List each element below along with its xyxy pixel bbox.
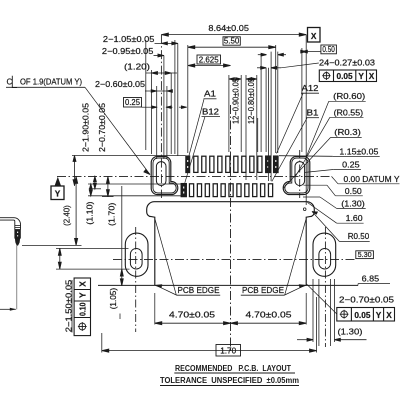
svg-text:R0.50: R0.50	[348, 231, 370, 241]
leader PCB EDGE left	[155, 220, 176, 296]
svg-text:2−0.70±0.05: 2−0.70±0.05	[97, 103, 107, 152]
dim (1.70) vertical	[107, 176, 109, 196]
leader centerline-of-1.9 note	[85, 87, 150, 174]
leader A1	[189, 99, 204, 155]
dim (2.40) vertical	[75, 176, 77, 245]
dim 2-0.95 line	[154, 55, 164, 57]
svg-text:0.25: 0.25	[342, 159, 360, 169]
leader (R0.60)	[329, 100, 366, 102]
extension line at x122	[121, 186, 123, 269]
right keyhole inner contour	[285, 158, 308, 193]
leader R0.50	[339, 241, 369, 243]
leader FCF bottom-right	[307, 284, 337, 314]
dim 2-0.70 vertical line left	[90, 184, 92, 196]
dim 2-0.60 line	[145, 90, 172, 92]
svg-text:A1: A1	[204, 89, 216, 99]
svg-text:8.64±0.05: 8.64±0.05	[208, 23, 249, 33]
svg-text:(1.05): (1.05)	[108, 288, 118, 310]
svg-text:PCB EDGE: PCB EDGE	[178, 285, 220, 295]
svg-text:(R0.3): (R0.3)	[334, 127, 361, 137]
pin B12 (dark)	[181, 183, 187, 197]
svg-text:0.50: 0.50	[345, 186, 362, 196]
svg-text:X: X	[369, 71, 375, 81]
side view bent lead outline	[0, 218, 21, 230]
datum Y target	[51, 177, 64, 200]
leader PCB EDGE right	[285, 220, 306, 296]
svg-text:2.625: 2.625	[199, 54, 219, 64]
dim 0.50 top-right line	[302, 51, 321, 53]
svg-text:RECOMMENDED P.C.B. LAYOUT: RECOMMENDED P.C.B. LAYOUT	[175, 363, 292, 373]
svg-text:PCB EDGE: PCB EDGE	[242, 285, 284, 295]
svg-text:(R0.60): (R0.60)	[333, 91, 365, 101]
extension lines body edge to 4.70 dim	[154, 293, 156, 325]
box 0.50 right	[321, 45, 337, 54]
box 1.70	[216, 345, 241, 357]
svg-text:Y: Y	[358, 71, 364, 81]
svg-text:Y: Y	[78, 292, 88, 298]
svg-text:4.70±0.05: 4.70±0.05	[169, 310, 215, 320]
leader 6.85 step	[357, 284, 359, 286]
svg-text:(1.10): (1.10)	[85, 201, 95, 224]
body bottom edge (extended line)	[98, 284, 358, 286]
svg-text:2−0.95±0.05: 2−0.95±0.05	[102, 46, 154, 56]
svg-text:TOLERANCE UNSPECIFIED ±0.05m: TOLERANCE UNSPECIFIED ±0.05mm	[160, 375, 299, 385]
dim 8.64	[161, 34, 306, 36]
svg-text:(R0.55): (R0.55)	[334, 107, 364, 117]
extension lines right pads	[257, 118, 259, 152]
leader 0.25 right	[333, 169, 361, 171]
left keyhole outer contour	[151, 156, 178, 194]
dim 4.70 left	[155, 322, 231, 324]
side view lead wire line	[16, 245, 18, 309]
datum X target	[308, 28, 321, 43]
left slot centerline	[160, 35, 162, 198]
FCF top right	[319, 70, 376, 82]
svg-text:C: C	[7, 78, 13, 87]
side view pin tip	[15, 238, 20, 245]
svg-text:Y: Y	[376, 310, 382, 320]
dim (1.05) vertical	[121, 269, 123, 286]
dim (1.30) bottom right	[297, 339, 313, 341]
extension lines left comb	[145, 40, 147, 150]
right keyhole slot	[295, 162, 305, 186]
side view pin block (hatched)	[15, 229, 21, 238]
side view ferrule rings	[15, 224, 21, 226]
left oval centerline vertical	[135, 227, 137, 332]
dim 12-0.80 arrows	[246, 78, 252, 81]
dim 2-1.90 vertical line	[74, 156, 76, 186]
leader 1.60	[337, 222, 364, 224]
1.70 dim extension lines	[101, 333, 103, 353]
dim 1.70	[102, 350, 317, 352]
left mounting oval inner slot	[130, 249, 142, 270]
side view arrow from left edge	[0, 308, 16, 310]
svg-text:4.70±0.05: 4.70±0.05	[246, 310, 292, 320]
svg-text:(1.30): (1.30)	[341, 198, 365, 208]
box 5.30	[356, 251, 374, 259]
svg-text:(1.30): (1.30)	[338, 327, 363, 337]
leader B12	[185, 117, 205, 183]
svg-text:24−0.27±0.03: 24−0.27±0.03	[319, 57, 375, 67]
svg-text:0.00 DATUM Y: 0.00 DATUM Y	[344, 174, 400, 184]
dim 5.50	[188, 46, 276, 48]
left mounting oval outer	[125, 233, 148, 276]
leader 0.00 datum underline	[338, 183, 400, 185]
svg-text:1.70: 1.70	[220, 346, 236, 356]
dim row-end stagger line	[258, 54, 266, 56]
bottom pad row B (open pads)	[189, 184, 272, 197]
svg-text:0.10: 0.10	[78, 302, 88, 316]
leader (R0.3)	[331, 137, 362, 139]
right mounting oval inner slot	[319, 249, 331, 270]
svg-text:B1: B1	[307, 108, 319, 118]
mount holes horizontal centerline	[113, 259, 356, 261]
dim 2.625	[188, 65, 231, 67]
svg-text:0.05: 0.05	[354, 310, 371, 320]
(1.10) feature line	[89, 188, 101, 190]
leader 0.50 right	[335, 195, 362, 197]
leader (R0.55)	[330, 116, 364, 118]
right mounting oval outer	[313, 233, 336, 276]
leader (1.30) right	[337, 208, 366, 210]
svg-text:0.50: 0.50	[322, 44, 335, 54]
svg-text:(1.70): (1.70)	[107, 202, 117, 226]
left keyhole inner contour	[153, 158, 176, 193]
svg-text:(2.40): (2.40)	[61, 205, 71, 226]
(1.70) feature line	[102, 196, 114, 198]
box 5.50	[223, 37, 240, 45]
dim 24-0.27 arrows line	[257, 67, 266, 69]
datum Y centerline (0.00 DATUM Y horizontal dash-dot)	[57, 175, 332, 177]
svg-text:2−1.05±0.05: 2−1.05±0.05	[103, 34, 155, 44]
side view pin tip extension	[22, 244, 82, 246]
leader A12	[277, 94, 304, 154]
svg-text:5.50: 5.50	[224, 36, 240, 46]
svg-text:5.30: 5.30	[358, 250, 372, 259]
dim 2-1.05 line	[155, 42, 178, 44]
svg-text:2−1.90±0.05: 2−1.90±0.05	[81, 103, 91, 152]
right oval extension lines down	[312, 279, 314, 342]
svg-text:Y: Y	[55, 188, 61, 198]
svg-text:2−1.50±0.05: 2−1.50±0.05	[63, 279, 73, 332]
svg-text:2−0.70±0.05: 2−0.70±0.05	[339, 295, 394, 305]
svg-text:X: X	[311, 31, 317, 41]
svg-text:(1.20): (1.20)	[124, 62, 150, 72]
dim (1.10) vertical	[94, 176, 96, 188]
svg-text:X: X	[78, 281, 88, 287]
connector body outline	[147, 202, 315, 286]
top pad row A (open pads A2-A10)	[194, 156, 262, 172]
right slot centerline	[299, 150, 301, 198]
svg-text:0.05: 0.05	[337, 71, 354, 81]
leader B1	[272, 118, 307, 182]
FCF bottom right	[337, 308, 395, 322]
dim (1.20) line	[146, 72, 177, 74]
svg-text:12−0.80±0.05: 12−0.80±0.05	[246, 78, 256, 124]
svg-text:1.60: 1.60	[346, 213, 363, 223]
dim 0.25 box lines	[142, 106, 157, 108]
box 0.25 left	[124, 98, 142, 108]
svg-text:2−0.60±0.05: 2−0.60±0.05	[95, 79, 145, 89]
extension lines middle (12-0.90/12-0.80 group)	[228, 75, 230, 152]
svg-text:0.25: 0.25	[125, 97, 140, 107]
dim 2-1.50 vertical	[59, 248, 61, 269]
svg-text:1.15±0.05: 1.15±0.05	[339, 147, 378, 157]
box 2.625	[197, 55, 221, 64]
svg-text:B12: B12	[202, 107, 219, 117]
pin A12 (dark)	[273, 156, 278, 173]
1.15 extension line	[279, 155, 333, 158]
right keyhole outer contour	[283, 156, 310, 194]
svg-text:6.85: 6.85	[362, 274, 380, 284]
dim 12-0.90 arrows	[229, 78, 235, 81]
svg-text:12−0.90±0.05: 12−0.90±0.05	[230, 78, 240, 124]
pin A11 (dark)	[265, 156, 270, 173]
body corner dot	[303, 208, 306, 211]
pad edge extension lines to left	[72, 155, 186, 157]
underline for 2-1.50	[71, 280, 73, 333]
pin A1 (dark through-hole pin)	[186, 156, 190, 173]
2-1.50 extension lines	[56, 247, 129, 249]
right oval centerline vertical	[324, 227, 326, 347]
dim 4.70 right	[231, 322, 307, 324]
svg-text:OF 1.9(DATUM Y): OF 1.9(DATUM Y)	[20, 77, 82, 87]
FCF left (rotated)	[74, 278, 90, 336]
left keyhole slot	[156, 162, 166, 186]
vertical main centerline	[230, 105, 232, 351]
svg-text:A12: A12	[302, 83, 319, 93]
svg-text:X: X	[386, 310, 392, 320]
